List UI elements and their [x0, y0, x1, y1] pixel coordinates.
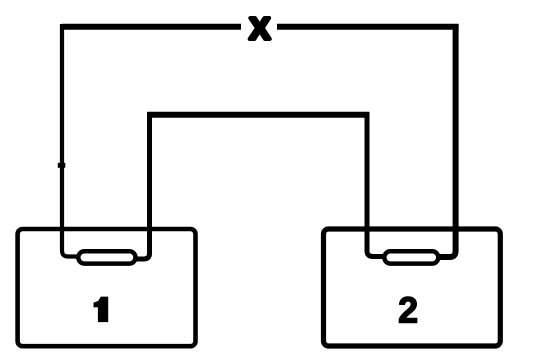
wire top-right segment from X [277, 24, 459, 30]
svg-text:X: X [249, 11, 270, 46]
wire top-left segment to X [62, 24, 241, 30]
cell 2 (box) [324, 229, 501, 346]
wire inner-left vertical into cell 1 [136, 112, 150, 259]
label 1 [94, 297, 109, 323]
cell 1 (box) [18, 229, 196, 346]
wire inner top horizontal [148, 112, 370, 118]
wire inner-right vertical into cell 2 [367, 112, 384, 257]
electrode in cell 2 [384, 251, 438, 263]
wire outer-right vertical into cell 2 [439, 24, 456, 257]
junction blob on outer-left wire [58, 163, 66, 168]
electrode in cell 1 [78, 251, 135, 263]
svg-text:2: 2 [398, 290, 418, 331]
wire outer-left vertical into cell 1 [62, 24, 78, 257]
